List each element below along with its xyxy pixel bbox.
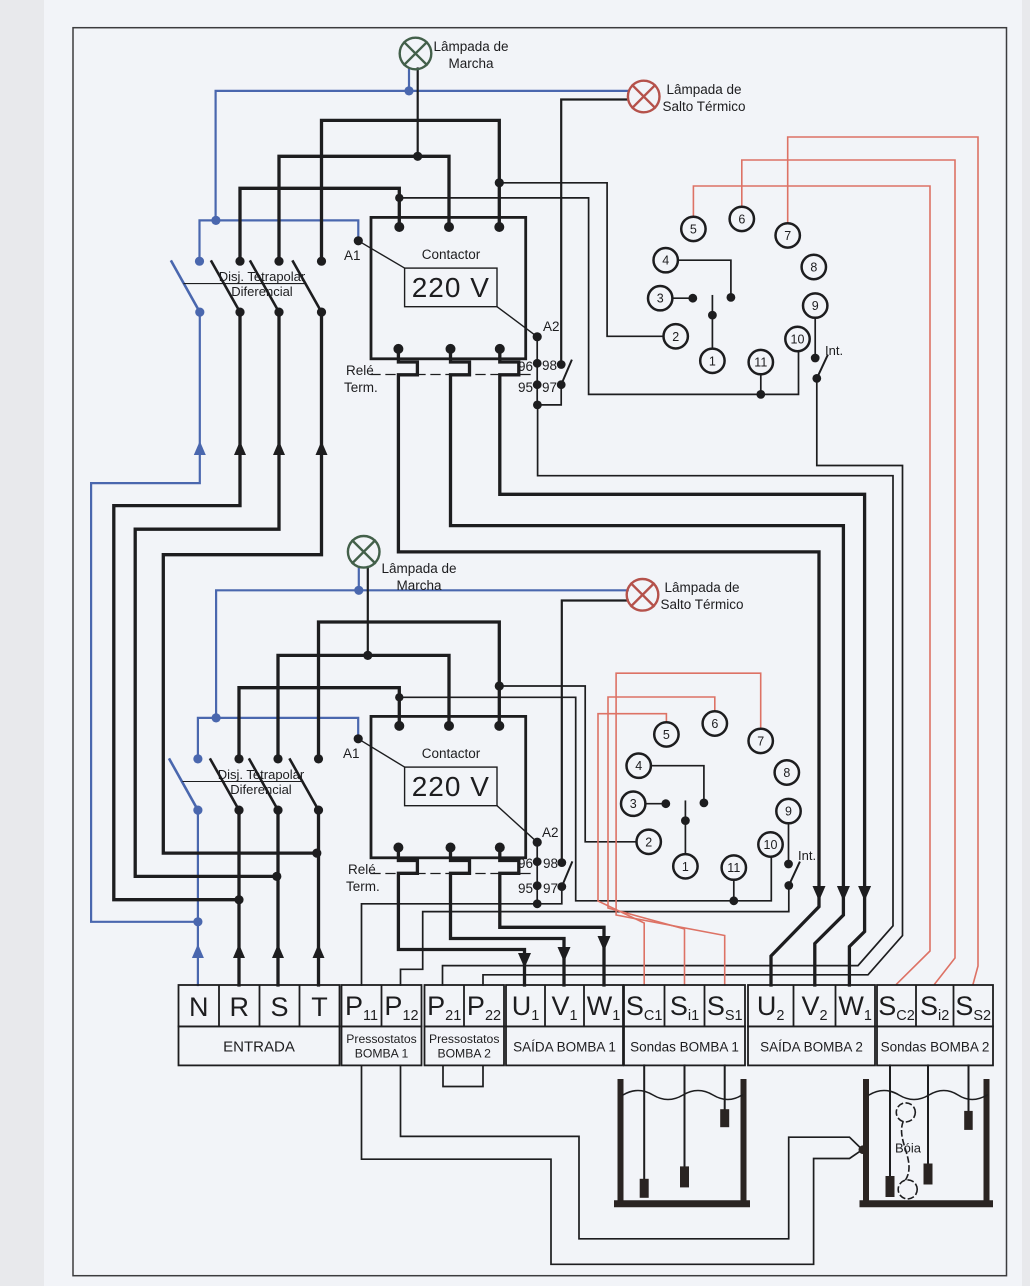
wire: lower breaker Q2 pole N riser and to contactor A1' [198, 718, 358, 757]
svg-text:Diferencial: Diferencial [230, 782, 292, 797]
probe SC1 [643, 1065, 645, 1178]
thermal relay F2 heater 1 and wire to U1 [398, 849, 524, 986]
junction dots (black, upper unit) [235, 152, 821, 410]
wire: relay pin4 to fixed contact [678, 260, 731, 297]
lamp L1 Lampada de Marcha (upper, green) [400, 38, 432, 70]
wire: 95 bottom link to 97 [537, 385, 561, 405]
pin numbers relay U2 [630, 717, 792, 875]
wire: relay pin4' to fixed contact [651, 766, 704, 803]
wire: relay pin9' to Int switch [788, 823, 790, 864]
svg-text:Bóia: Bóia [895, 1141, 922, 1156]
relay socket U1 pins (upper, 11-pin base) [648, 207, 827, 375]
wire: neutral top horizontal to red lamp L2 [216, 91, 628, 221]
wire: relay pin5' to terminal SC1 [598, 714, 666, 985]
wire: red lamp L2 feed from contact 98 [561, 100, 628, 365]
svg-text:S: S [270, 992, 288, 1022]
wire: relay pin3 to fixed contact [672, 297, 692, 299]
svg-text:Pressostatos: Pressostatos [429, 1032, 499, 1046]
tank 2 water line [869, 1091, 987, 1100]
terminal group ENTRADA box [179, 985, 340, 1026]
svg-text:11: 11 [754, 356, 767, 370]
svg-text:Lâmpada de: Lâmpada de [381, 561, 456, 576]
svg-text:Lâmpada de: Lâmpada de [666, 82, 741, 97]
svg-text:T: T [311, 992, 328, 1022]
relay socket U2 pins (lower, 11-pin base) [621, 711, 801, 880]
svg-text:97: 97 [542, 380, 557, 395]
svg-text:1: 1 [682, 860, 689, 874]
wire: lower unit neutral rail to lamps [216, 590, 628, 717]
terminal group Pressostatos BOMBA 1 box [342, 985, 422, 1026]
svg-text:BOMBA 2: BOMBA 2 [437, 1047, 491, 1061]
probe electrodes [640, 1109, 973, 1198]
svg-text:Disj. Tetrapolar: Disj. Tetrapolar [219, 269, 306, 284]
breaker Q2 pole R blade [211, 760, 240, 811]
svg-text:220 V: 220 V [412, 272, 490, 303]
wire: green lamp L3 neutral lead [358, 567, 360, 590]
svg-text:Sondas BOMBA 2: Sondas BOMBA 2 [881, 1040, 990, 1055]
wire: relay pin7 to terminal SS2 [788, 137, 978, 984]
wire: Q2 pole T down to terminal T [317, 811, 320, 985]
svg-text:Term.: Term. [344, 380, 378, 395]
svg-text:Contactor: Contactor [422, 746, 481, 761]
svg-text:Term.: Term. [346, 879, 380, 894]
wire: A2 to contacts 96-95 [536, 337, 538, 405]
svg-text:8: 8 [783, 766, 790, 780]
wire: relay arm pin1' [684, 801, 686, 854]
probe SS2 [968, 1065, 970, 1111]
svg-text:2: 2 [672, 330, 679, 344]
thermal F1 linkage (dashed) [371, 374, 531, 376]
svg-text:A1: A1 [344, 248, 361, 263]
wire: Q2 pole S down to terminal S [276, 811, 279, 985]
svg-text:8: 8 [810, 261, 817, 275]
switch Int blade (lower) [789, 863, 800, 886]
svg-text:7: 7 [784, 229, 791, 243]
wire: relay pin5 to terminal SC2 [693, 186, 930, 984]
breaker Q1 pole T blade [293, 262, 322, 313]
breaker Q1 pole R blade [212, 262, 241, 313]
wire: red lamp L4 feed from contact 98' [562, 601, 628, 862]
svg-text:97: 97 [543, 881, 558, 896]
svg-text:1: 1 [709, 354, 716, 368]
wire B: Int to terminal P22 [483, 378, 903, 985]
wire: relay pin7' to terminal SS1 [616, 673, 761, 985]
breaker Q2 pole S blade [250, 760, 279, 811]
svg-text:Int.: Int. [825, 343, 843, 358]
svg-text:Marcha: Marcha [396, 578, 442, 593]
lamp L4 Lampada de Salto Termico (lower, red) [627, 579, 659, 611]
wire: coil K2 to A2' [497, 806, 537, 843]
svg-text:Marcha: Marcha [448, 56, 494, 71]
wire: phase T riser pole4 to contactor top 3 [322, 120, 500, 259]
wire: Q1 pole R down-left to R rail [114, 313, 240, 900]
breaker Q2 linkage bar [183, 781, 303, 783]
wire A: 95 to terminal P21 [443, 405, 894, 985]
wire: A1' to coil K2 [358, 739, 404, 767]
svg-text:Salto Térmico: Salto Térmico [660, 597, 743, 612]
svg-text:5: 5 [663, 728, 670, 742]
wire: relay pin11 lead [760, 374, 762, 394]
thermal relay F1 heater 3 and wire to W2 [500, 350, 865, 985]
svg-text:Pressostatos: Pressostatos [346, 1032, 416, 1046]
wire: Q1 pole T down-left to T rail [163, 313, 321, 853]
wire: green lamp L1 neutral lead [408, 69, 410, 91]
terminal strip [179, 985, 994, 1065]
svg-text:A2: A2 [542, 825, 559, 840]
svg-text:95: 95 [518, 881, 533, 896]
breaker Q2 pole N blade [170, 760, 198, 811]
wire: P12 to float switch [401, 1065, 863, 1238]
wire: coil K1 to A2 [497, 307, 537, 337]
contact blade 97-98 (F1) [561, 361, 571, 385]
terminal group Sondas BOMBA 2 box [877, 985, 993, 1026]
svg-text:Sondas BOMBA 1: Sondas BOMBA 1 [630, 1040, 739, 1055]
wire: neutral down left side to N junction [91, 313, 200, 922]
breaker Q1 pole N blade [172, 262, 200, 313]
breaker Q1 pole S blade [251, 262, 280, 313]
svg-text:A1: A1 [343, 746, 360, 761]
wire: phase R' tap to relay pin11' and pin10' [399, 697, 771, 901]
svg-text:95: 95 [518, 380, 533, 395]
svg-text:220 V: 220 V [412, 771, 490, 802]
tank 1 walls [621, 1082, 744, 1201]
wire: Q2 pole N down to terminal N [197, 811, 199, 985]
wire: relay pin6 to terminal Si2 [742, 160, 955, 984]
wire: neutral from breaker pole N to contactor A1 [200, 220, 359, 259]
wire: relay arm pin1 [711, 296, 713, 349]
svg-text:98: 98 [543, 856, 558, 871]
svg-text:A2: A2 [543, 319, 560, 334]
contactor K1 box [371, 217, 526, 358]
terminal group SAIDA BOMBA 1 box [506, 985, 623, 1026]
svg-text:Relé: Relé [348, 862, 376, 877]
svg-text:Lâmpada de: Lâmpada de [433, 39, 508, 54]
220V coil box K2 [405, 767, 497, 806]
svg-text:Lâmpada de: Lâmpada de [664, 580, 739, 595]
tank 1 water line [623, 1091, 742, 1100]
svg-text:Diferencial: Diferencial [231, 284, 293, 299]
wire: jumper P21-P22 [443, 1065, 483, 1086]
svg-text:98: 98 [542, 358, 557, 373]
svg-text:3: 3 [657, 292, 664, 306]
wire: Int' to terminal P12 [401, 886, 789, 986]
svg-text:9: 9 [812, 299, 819, 313]
wire: 95' bottom link to 97' [537, 887, 562, 904]
probe SC2 [889, 1065, 891, 1176]
wire: phase T tap to relay pin2 [499, 183, 663, 336]
svg-text:Relé: Relé [346, 363, 374, 378]
thermal relay F1 heater 1 and wire to U2 [398, 350, 819, 985]
svg-text:R: R [229, 992, 249, 1022]
lamp L3 Lampada de Marcha (lower, green) [348, 536, 380, 568]
svg-text:SAÍDA BOMBA 1: SAÍDA BOMBA 1 [513, 1040, 616, 1055]
svg-text:5: 5 [690, 222, 697, 236]
contactor K2 box [371, 716, 526, 857]
wire: A1 to coil K1 [358, 241, 404, 268]
float Boia dashed symbol [896, 1103, 915, 1122]
220V coil box K1 [405, 268, 497, 307]
wire: relay pin9 to Int switch [814, 318, 816, 358]
wire: green lamp L3 feed lead [367, 567, 369, 655]
wire: phase R riser pole2 to contactor top 1 [240, 188, 399, 259]
probe Si2 [927, 1065, 929, 1163]
wire: A2' to contacts 96'-95' [536, 842, 538, 904]
svg-text:2: 2 [645, 835, 652, 849]
wire: phase R tap to relay pin11 and pin10 [399, 198, 798, 395]
svg-text:Int.: Int. [798, 848, 816, 863]
terminal group Sondas BOMBA 1 box [624, 985, 745, 1026]
thermal relay F2 heater 2 and wire to V1 [451, 849, 565, 986]
switch Int blade (upper) [817, 356, 828, 379]
svg-text:11: 11 [727, 861, 740, 875]
wire: relay pin3' to fixed contact [645, 803, 665, 805]
svg-text:BOMBA 1: BOMBA 1 [355, 1047, 409, 1061]
svg-text:Salto Térmico: Salto Térmico [662, 99, 745, 114]
wire: phase S riser pole3 to contactor top 2 [279, 156, 449, 259]
terminal group Pressostatos BOMBA 2 box [425, 985, 505, 1026]
tank 2 walls [866, 1082, 987, 1201]
svg-text:Disj. Tetrapolar: Disj. Tetrapolar [218, 767, 305, 782]
svg-text:6: 6 [711, 717, 718, 731]
junction dots (black, lower unit) [234, 651, 793, 908]
float cable entry junction [859, 1145, 868, 1154]
svg-text:Contactor: Contactor [422, 247, 481, 262]
svg-text:96: 96 [518, 856, 533, 871]
svg-text:4: 4 [635, 759, 642, 773]
thermal relay F1 heater 2 and wire to V2 [451, 350, 844, 985]
terminal group SAIDA BOMBA 2 box [748, 985, 875, 1026]
wire: Q2 phase risers to lower contactor [319, 622, 500, 757]
probe SS1 [724, 1065, 726, 1109]
pin numbers relay U1 [657, 212, 819, 369]
svg-text:9: 9 [785, 805, 792, 819]
wire: relay pin11' lead [733, 880, 735, 901]
probe Si1 [684, 1065, 686, 1166]
svg-text:SAÍDA BOMBA 2: SAÍDA BOMBA 2 [760, 1040, 863, 1055]
svg-text:10: 10 [791, 333, 805, 347]
svg-text:6: 6 [738, 212, 745, 226]
svg-text:N: N [189, 992, 209, 1022]
thermal relay F2 heater 3 and wire to W1 [500, 849, 604, 986]
svg-text:3: 3 [630, 797, 637, 811]
arrows: feed direction [192, 441, 206, 958]
svg-text:7: 7 [757, 734, 764, 748]
wire: P11 to float switch [362, 1065, 863, 1264]
contact blade 97'-98' (F2) [562, 862, 572, 886]
wire: Q1 pole S down-left to S rail [135, 313, 279, 876]
svg-text:96: 96 [518, 359, 533, 374]
svg-text:ENTRADA: ENTRADA [223, 1039, 295, 1056]
thermal F2 linkage (dashed) [371, 873, 531, 875]
wire: green lamp L1 feed lead [417, 69, 419, 157]
wire: Q2 pole R down to terminal R [237, 811, 240, 985]
breaker Q1 linkage bar [184, 283, 304, 285]
wire: relay pin6' to terminal Si1 [608, 697, 715, 985]
wire: 95' junction to terminal P11 [362, 904, 538, 985]
svg-text:10: 10 [764, 838, 778, 852]
breaker Q2 pole T blade [290, 760, 319, 811]
lamp L2 Lampada de Salto Termico (upper, red) [628, 81, 660, 113]
svg-text:4: 4 [662, 254, 669, 268]
wire: phase T' tap to relay pin2' [499, 686, 636, 842]
junction dots (blue) [193, 86, 413, 926]
